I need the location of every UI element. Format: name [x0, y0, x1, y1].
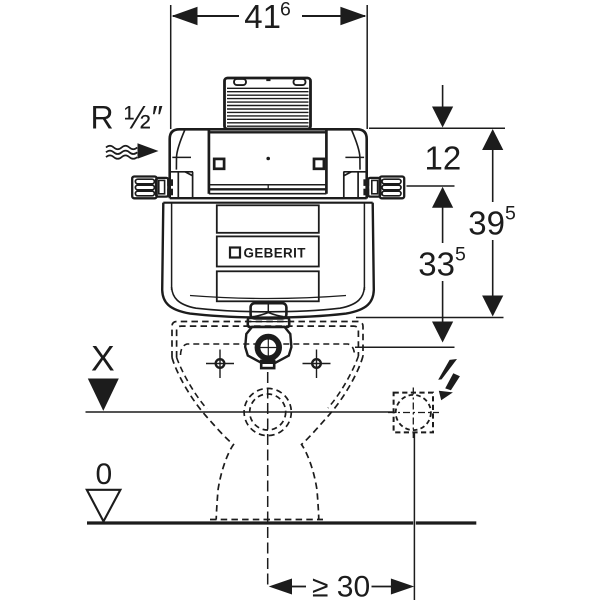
water inlet arrow — [138, 143, 159, 158]
floor line — [87, 521, 413, 524]
service panel bottom band — [209, 185, 327, 194]
flush bend: center marks — [257, 347, 281, 349]
cistern innermost bottom arc — [190, 296, 346, 299]
protection box slot right — [294, 79, 306, 85]
WC pan dashed: inner rim — [177, 326, 359, 357]
WC pan dashed: left bowl inner curve — [177, 358, 207, 410]
svg-text:X: X — [91, 338, 115, 378]
dimension 12 — [425, 85, 462, 176]
GEBERIT logo square — [230, 248, 240, 258]
front panel rectangle 1 — [217, 205, 319, 233]
dimension 41.6 top: extension line left — [170, 5, 172, 129]
left bracket clips — [167, 179, 173, 186]
right dimension reference line C (rim) — [355, 346, 455, 348]
WC outlet dashed circle inner — [250, 394, 286, 430]
right wing inner contour — [352, 130, 360, 170]
right bracket connector — [368, 178, 380, 197]
left wall bracket plate — [132, 177, 173, 199]
front panel rectangle 3 — [217, 271, 319, 301]
WC pan dashed: outer rim — [172, 322, 363, 358]
electrical connection: cross lines — [388, 412, 439, 414]
water inlet wavy lines — [106, 146, 137, 159]
service panel center dot — [266, 157, 270, 161]
cistern upper bottom line — [170, 197, 367, 199]
fixing point marker left — [206, 350, 234, 379]
flush bend: outlet stub — [261, 361, 274, 368]
svg-text:R ½″: R ½″ — [91, 100, 164, 136]
right dimension reference line B (bracket) — [407, 185, 455, 187]
WC pan dashed: opening edge — [181, 344, 355, 355]
electrical connection: dashed circle — [396, 395, 431, 430]
X level marker (filled triangle) — [88, 379, 119, 411]
dimension 39.5 — [468, 129, 516, 317]
svg-text:5: 5 — [505, 203, 516, 225]
svg-text:6: 6 — [280, 0, 291, 21]
flush bend: flange — [248, 318, 289, 327]
left wing inner contour — [176, 130, 184, 170]
front panel rectangle 2 (logo) — [217, 236, 319, 266]
floor level marker (open triangle) — [87, 490, 121, 522]
electrical connection: dashed box — [394, 393, 433, 433]
right wing shelf line — [345, 156, 364, 158]
WC pan dashed: right bowl curve — [302, 356, 364, 520]
electrical connection: lightning arrow — [438, 359, 457, 380]
svg-text:41: 41 — [244, 0, 281, 35]
flush bend: elbow inner circle — [260, 339, 277, 356]
right bracket clips — [363, 179, 369, 186]
left wing shelf line — [172, 156, 191, 158]
cistern inner bottom arc — [172, 287, 365, 312]
right dimension reference line A (tank top) — [369, 127, 505, 129]
right bracket pocket — [343, 172, 366, 199]
svg-text:39: 39 — [468, 205, 505, 242]
right dimension reference line D (tank bottom) — [356, 317, 504, 319]
service panel clip right — [314, 159, 324, 169]
svg-text:GEBERIT: GEBERIT — [244, 245, 307, 260]
cistern lower section outline — [162, 203, 374, 318]
WC pan dashed: pedestal bottom — [210, 519, 323, 521]
horizontal center line through outlet — [86, 411, 393, 413]
svg-text:5: 5 — [455, 244, 466, 266]
svg-text:0: 0 — [96, 458, 113, 491]
service panel clip left — [214, 159, 224, 169]
flush bend: hex nut — [251, 303, 287, 318]
WC pan dashed: left bowl curve — [172, 358, 234, 520]
right wall bracket plate — [363, 177, 404, 199]
WC outlet dashed circle outer — [244, 388, 291, 435]
fixing point marker right — [303, 350, 331, 379]
protection box (striped) on top of cistern — [225, 78, 311, 129]
vertical center line — [267, 372, 269, 587]
left bracket pocket — [170, 172, 193, 199]
svg-text:≥ 30: ≥ 30 — [312, 571, 370, 600]
cistern upper section outline — [170, 129, 367, 198]
svg-text:12: 12 — [425, 139, 462, 176]
cistern lower top line — [163, 202, 372, 204]
vertical line below electrical box — [413, 433, 415, 600]
service panel top line — [209, 131, 327, 133]
WC pan dashed: right bowl inner curve — [328, 356, 358, 408]
flush bend: elbow ring — [257, 336, 280, 359]
service panel left edge — [208, 130, 211, 194]
protection box center notch — [266, 79, 270, 81]
dimension >=30 bottom — [269, 571, 415, 600]
dimension 33.5 — [418, 187, 466, 343]
cistern lower inner walls — [171, 204, 173, 291]
dimension 41.6 top: extension line right — [366, 5, 368, 129]
protection box stripes — [227, 88, 309, 126]
svg-text:33: 33 — [418, 246, 455, 283]
flush bend: elbow housing — [245, 327, 291, 363]
left bracket connector — [156, 178, 168, 197]
dimension 41.6 top: dim line with arrows — [172, 7, 367, 25]
service panel right edge — [325, 130, 328, 194]
protection box slot left — [234, 79, 246, 85]
